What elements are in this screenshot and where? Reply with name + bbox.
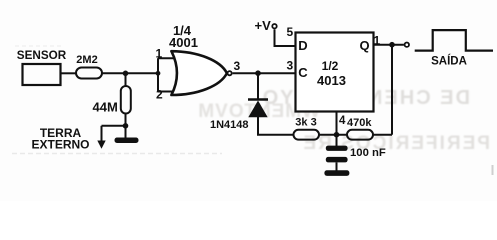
svg-text:2: 2 — [156, 88, 163, 102]
svg-text:3: 3 — [287, 59, 294, 73]
svg-text:4013: 4013 — [317, 73, 346, 88]
svg-text:5: 5 — [287, 25, 294, 39]
svg-text:1: 1 — [374, 34, 381, 48]
svg-text:100 nF: 100 nF — [350, 147, 386, 159]
svg-text:3k 3: 3k 3 — [295, 117, 316, 129]
svg-text:4: 4 — [339, 115, 346, 127]
svg-text:1N4148: 1N4148 — [210, 119, 249, 131]
svg-text:EXTERNO: EXTERNO — [31, 138, 89, 152]
svg-text:SAÍDA: SAÍDA — [431, 55, 467, 68]
svg-text:470k: 470k — [347, 117, 372, 129]
svg-text:3: 3 — [234, 59, 241, 73]
svg-text:1/2: 1/2 — [322, 59, 339, 73]
svg-text:44M: 44M — [93, 100, 118, 115]
svg-text:D: D — [298, 38, 307, 53]
svg-text:4001: 4001 — [169, 35, 198, 50]
svg-text:1: 1 — [156, 47, 163, 61]
svg-text:+V: +V — [255, 18, 272, 33]
svg-text:Q: Q — [360, 38, 370, 53]
svg-text:SENSOR: SENSOR — [17, 49, 67, 62]
svg-text:C: C — [298, 65, 308, 80]
svg-text:2M2: 2M2 — [76, 54, 97, 66]
